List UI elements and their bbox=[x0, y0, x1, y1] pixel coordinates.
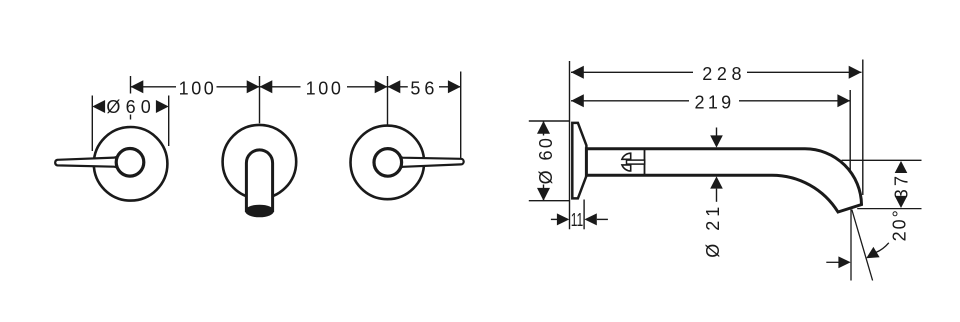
arrow Ø60 right bbox=[156, 100, 169, 113]
arrow 37 up bbox=[895, 161, 908, 173]
extension line Ø60 bottom (y=200.7) bbox=[529, 200, 570, 202]
extension line Ø21 (x=716.5) bbox=[716, 128, 718, 136]
arrow Ø60 bottom bbox=[537, 188, 550, 201]
logo upper half-disc bbox=[622, 153, 631, 159]
angle flow line 20deg bbox=[852, 210, 873, 281]
arrow 219 left bbox=[571, 94, 584, 107]
dimension line 228 bbox=[571, 71, 693, 73]
label Ø21 (rotated) bbox=[703, 203, 723, 258]
arrow Ø21 down (onto spout top) bbox=[710, 135, 723, 147]
svg-text:56: 56 bbox=[410, 79, 438, 99]
escutcheon circle 2 bbox=[223, 125, 297, 199]
arrow 11 right with leader bbox=[597, 218, 608, 220]
extension line wall face (x=569.5) bbox=[569, 61, 571, 229]
extension line Ø60 left (x=92.3) bbox=[91, 96, 93, 152]
extension line lever3 tip (x=460.7) bbox=[460, 72, 462, 159]
arrow Ø21 up (onto spout bottom) bbox=[710, 176, 723, 188]
extension line circle3 center (x=387.5) bbox=[387, 76, 389, 125]
angle arrow horizontal bbox=[826, 261, 838, 263]
spout outlet ellipse bbox=[245, 205, 274, 218]
svg-text:228: 228 bbox=[702, 64, 746, 84]
escutcheon circle 1 bbox=[94, 127, 168, 201]
lever handle 1 (pointing left) bbox=[55, 153, 121, 172]
dimension line Ø60 vertical segments bbox=[543, 121, 545, 136]
label Ø60 (rotated) bbox=[536, 136, 556, 185]
wall plate (escutcheon side view) bbox=[572, 123, 586, 198]
angle arc arrowhead bbox=[866, 247, 879, 258]
svg-text:219: 219 bbox=[695, 92, 735, 112]
lever handle 3 (pointing right) bbox=[396, 153, 464, 172]
label 20 deg (rotated) bbox=[889, 208, 909, 241]
svg-text:Ø 60: Ø 60 bbox=[536, 136, 556, 185]
extension line circle2 center (x=259.5) bbox=[259, 76, 261, 123]
arrow 228 left bbox=[571, 66, 584, 79]
angle arc leader bbox=[876, 243, 889, 253]
spout body side view bbox=[586, 149, 861, 212]
dimension line 56 bbox=[388, 86, 408, 88]
arrow Ø60 top bbox=[537, 121, 550, 134]
svg-text:20°: 20° bbox=[889, 208, 909, 241]
svg-text:100: 100 bbox=[179, 79, 217, 99]
arrow right of 56 bbox=[448, 80, 461, 93]
dimension line 100 (second) bbox=[260, 86, 301, 88]
arrow pair at x=259.5 bbox=[247, 80, 273, 93]
svg-text:Ø 21: Ø 21 bbox=[703, 203, 723, 258]
body seam line bbox=[644, 149, 646, 175]
logo bar bbox=[627, 160, 645, 164]
arrow 37 down bbox=[895, 196, 908, 208]
logo lower half-disc bbox=[622, 165, 631, 171]
extension line Ø60 right (x=168.7) bbox=[168, 96, 170, 147]
extension line 11 right (x=584.1) bbox=[583, 200, 585, 230]
handle hub 3 bbox=[374, 149, 402, 177]
svg-text:37: 37 bbox=[892, 173, 912, 199]
dimension line Ø21 lower segment bbox=[716, 189, 718, 202]
extension line 37 top (y=160.3) bbox=[842, 159, 922, 161]
svg-text:11: 11 bbox=[571, 210, 584, 230]
svg-text:Ø60: Ø60 bbox=[106, 97, 156, 117]
label 37 (rotated) bbox=[892, 173, 912, 199]
extension line spout max reach (x=862.8) bbox=[862, 60, 864, 196]
spout front view (vertical) bbox=[246, 150, 272, 212]
extension line circle1 center (x=130.5) bbox=[130, 76, 132, 94]
dimension line 219 bbox=[571, 100, 689, 102]
arrow pair at x=387.5 bbox=[375, 80, 401, 93]
arrow 219 right bbox=[837, 94, 850, 107]
escutcheon circle 3 bbox=[351, 126, 425, 200]
extension line outlet tip (x=850.2) upper bbox=[849, 90, 851, 170]
arrow left of first 100 bbox=[131, 80, 144, 93]
extension line Ø60 top (y=121) bbox=[529, 120, 569, 122]
arrow 228 right bbox=[849, 66, 862, 79]
dimension line 100 (first) bbox=[131, 86, 177, 88]
angle reference vertical line bbox=[850, 210, 852, 281]
svg-text:100: 100 bbox=[306, 79, 344, 99]
centerline dash above circle1 bbox=[130, 115, 132, 120]
arrow Ø60 left bbox=[92, 100, 105, 113]
arrow 11 left with leader bbox=[551, 218, 558, 220]
handle hub 1 bbox=[116, 149, 144, 177]
extension line 37 bottom (y=208.6) bbox=[857, 208, 921, 210]
